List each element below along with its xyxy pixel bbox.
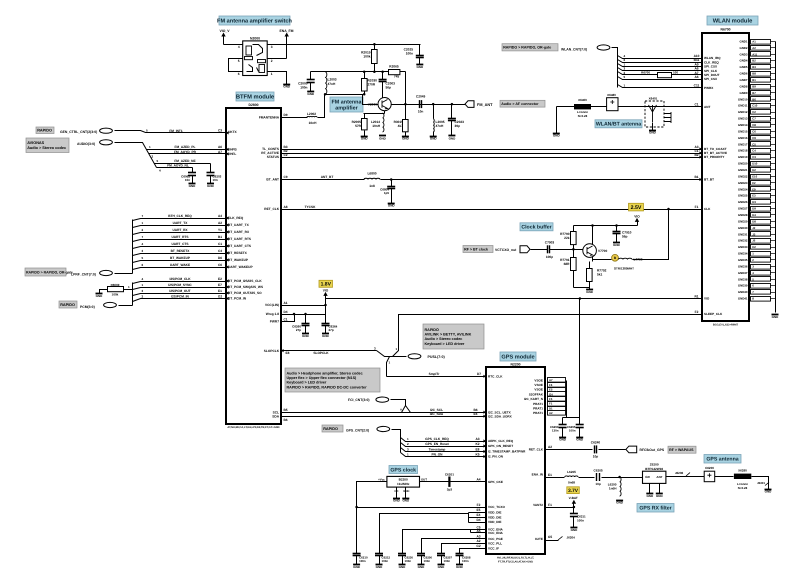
svg-text:C6200: C6200 [705,466,714,470]
inductor L2014 10nH [383,113,384,132]
svg-text:C4: C4 [218,249,222,253]
svg-text:+Vcc: +Vcc [378,477,385,481]
svg-text:A4: A4 [218,214,222,218]
svg-text:Y1: Y1 [218,228,222,232]
svg-text:GND: GND [207,184,215,188]
wire X6290 to GND end [752,477,769,490]
svg-text:GND: GND [571,528,579,532]
label RAPIDO (PCM) [59,301,77,308]
capacitor C6240 10p series [594,445,596,453]
wire switch pin1 to ground [268,72,287,85]
svg-text:22k: 22k [564,236,570,240]
svg-text:GND18: GND18 [738,149,748,153]
wire emitter V7700 [592,257,594,262]
svg-text:100n: 100n [424,559,431,563]
svg-text:C6240: C6240 [591,441,601,445]
wire amplifier top rail [311,71,389,73]
svg-text:BT_WAKEUP: BT_WAKEUP [170,256,191,260]
svg-text:C6205: C6205 [594,468,603,472]
svg-text:100n: 100n [444,559,451,563]
svg-text:GND: GND [388,203,396,207]
svg-text:I2_TIMESTAMP_BATPWR: I2_TIMESTAMP_BATPWR [488,450,526,454]
svg-text:D4: D4 [476,518,480,522]
svg-text:C9: C9 [752,136,756,140]
svg-text:VIO: VIO [704,297,710,301]
wire PCM I2S/PCM_SYNC [133,288,227,290]
resistor R3015 4k7 [405,105,407,120]
svg-text:PN_ON: PN_ON [432,453,444,457]
svg-text:V7700: V7700 [598,249,607,253]
svg-text:GND8: GND8 [739,84,747,88]
svg-text:E9: E9 [752,187,756,191]
svg-text:130n: 130n [552,429,559,433]
svg-text:GND22: GND22 [738,174,748,178]
wire PCM bus to riser [119,305,133,307]
ground C6210 [353,565,361,569]
svg-text:J2: J2 [752,226,756,230]
svg-text:B2: B2 [694,153,698,157]
svg-text:RAPIDO: RAPIDO [60,303,75,307]
svg-text:1n6H: 1n6H [609,487,617,491]
svg-text:E10: E10 [752,174,757,178]
svg-text:R6069: R6069 [111,283,120,287]
wire output line [392,104,466,106]
wire L6800 to WLAN BT_BT [381,179,703,181]
svg-text:RAPIDO > RAPIDO, OR-gate: RAPIDO > RAPIDO, OR-gate [503,46,551,50]
svg-text:GND: GND [772,315,780,319]
resistor R7791 68R [573,250,575,258]
ground R6069 [96,294,104,298]
svg-text:BT_PCM_OUT/I2S_SO: BT_PCM_OUT/I2S_SO [228,291,262,295]
svg-text:VCC_PGE: VCC_PGE [488,537,503,541]
svg-text:1p5: 1p5 [384,191,390,195]
ground ANT line [553,133,561,137]
svg-text:3.7V: 3.7V [568,488,579,494]
svg-text:GPK_CKE: GPK_CKE [488,480,503,484]
svg-text:GND: GND [302,334,310,338]
svg-text:PUSL(7:0): PUSL(7:0) [428,355,446,359]
svg-text:D3: D3 [752,200,756,204]
svg-text:R6700: R6700 [641,71,650,75]
svg-text:10p: 10p [595,482,600,486]
svg-text:10n: 10n [213,178,218,182]
svg-text:GND4: GND4 [739,59,747,63]
svg-text:Wreg 1.8: Wreg 1.8 [266,312,279,316]
wire L2002 to amplifier input rail [318,95,325,118]
ground clock buffer [586,290,594,294]
svg-text:C1: C1 [218,242,222,246]
wire WLAN_CNT line A9 [618,64,703,67]
wire GPS power pin rail [566,381,568,418]
svg-text:GND: GND [283,85,291,89]
wire to C6205 [579,477,595,479]
ground R2005 [361,136,369,140]
svg-text:GND34: GND34 [738,252,748,256]
capacitor C6804 1p5 [390,178,393,181]
svg-text:GND38: GND38 [738,277,748,281]
wire rail up to 1.8V line [579,299,581,418]
wire AUDIO line FM_AOYD_NL [157,167,193,169]
svg-text:D7: D7 [477,372,481,376]
wire UART UART_WAKE [133,268,227,270]
svg-text:GND1: GND1 [739,39,747,43]
svg-text:B1: B1 [694,175,698,179]
wire SmplTr to GPS RTC_CLK [387,376,487,378]
svg-text:J6: J6 [752,239,756,243]
svg-text:A5: A5 [476,529,480,533]
svg-text:WLAN/BT antenna: WLAN/BT antenna [596,122,641,128]
label Audio Headphone box [285,368,380,392]
wire UART BTH_CLK_REQ [133,219,227,221]
capacitor C6211 100n [573,508,575,514]
wire VCC_TCXO [357,507,487,509]
label AVIONAS Audio > Stereo codec [26,138,69,153]
ground C6264 [322,334,330,338]
svg-text:1n8: 1n8 [369,184,375,188]
svg-text:1: 1 [271,72,273,76]
WLAN left pin names [704,56,727,316]
svg-text:D9: D9 [283,113,287,117]
svg-text:C11: C11 [694,84,700,88]
svg-text:A: A [400,408,402,412]
svg-text:RAPIDO > RAPIDO, RAPIDO DC-DC: RAPIDO > RAPIDO, RAPIDO DC-DC converter [287,385,368,389]
svg-text:GND: GND [613,243,621,247]
svg-text:68R: 68R [564,262,571,266]
svg-text:745: 745 [394,75,400,79]
svg-text:2.5V: 2.5V [631,205,642,211]
svg-text:GND29: GND29 [738,219,748,223]
svg-text:VCC_PLL: VCC_PLL [488,542,502,546]
svg-text:GND: GND [656,494,664,498]
svg-text:E8: E8 [476,448,480,452]
svg-text:L6205: L6205 [567,470,576,474]
svg-text:AVL,NU,RF,NU,K2,LP,LT,LH,LT,: AVL,NU,RF,NU,K2,LP,LT,LH,LT, [497,557,535,560]
svg-text:VDD_DIE: VDD_DIE [488,511,501,515]
svg-text:C8: C8 [752,123,756,127]
svg-text:UART_WAKEUP: UART_WAKEUP [228,265,253,269]
svg-text:100: 100 [673,71,678,75]
ground C6062 [189,184,197,188]
svg-text:100k: 100k [363,55,370,59]
svg-text:D4: D4 [752,213,756,217]
wire PCM I2S/PCM_CLK [133,282,227,284]
svg-text:VIO_V: VIO_V [220,29,231,33]
wire clock buffer top rail [574,225,638,227]
svg-text:I2S/PCM_CLK: I2S/PCM_CLK [169,277,191,281]
wire I2C_SCL [282,412,487,414]
svg-text:C1: C1 [283,317,287,321]
svg-text:C7903: C7903 [545,241,555,245]
svg-text:FM antenna amplifier switch: FM antenna amplifier switch [217,18,292,25]
svg-text:FM_INT1: FM_INT1 [169,129,183,133]
svg-text:UKTX: UKTX [228,130,238,134]
svg-text:E8: E8 [286,351,290,355]
label: FM antenna amplifier switch [219,16,290,25]
svg-text:100k: 100k [112,293,119,297]
capacitor C6230 100n [402,553,404,555]
ground Z6200 leg2 [656,494,664,498]
svg-text:A2: A2 [218,221,222,225]
svg-text:A8: A8 [283,205,287,209]
capacitor C2023 39p [451,103,454,106]
label 2.5V [629,203,644,211]
svg-text:VSOE: VSOE [534,383,543,387]
svg-text:D8: D8 [752,219,756,223]
svg-text:K5: K5 [475,453,479,457]
svg-text:RFClkOut_GPS: RFClkOut_GPS [640,448,665,452]
wire C6240 to connector [599,449,626,451]
svg-text:SmplTr: SmplTr [429,372,441,376]
wire amplifier mid rail [325,95,379,105]
svg-text:GND: GND [322,334,330,338]
svg-text:J6204: J6204 [567,536,576,540]
connector FM_ANT [465,101,474,108]
svg-text:D4: D4 [283,310,287,314]
svg-text:N=0.28: N=0.28 [578,114,588,118]
wire GEN_CTRL to UKTX pin C3 [115,131,227,133]
capacitor C2000 100n [310,72,312,80]
svg-text:N=0.28: N=0.28 [738,486,748,490]
svg-text:B6: B6 [752,97,756,101]
capacitor C2049 10n series [419,100,421,108]
svg-text:GPS_EN_Reset: GPS_EN_Reset [425,442,449,446]
svg-text:R2065: R2065 [389,64,399,68]
svg-text:SLOPCLK: SLOPCLK [264,349,280,353]
svg-text:GND: GND [616,500,624,504]
svg-text:J6206: J6206 [675,471,684,475]
resistor R6069 100k [100,290,108,294]
BTFM left pin names [228,130,263,301]
svg-text:N6700: N6700 [721,28,731,32]
svg-text:GND5: GND5 [739,65,747,69]
svg-text:X6400: X6400 [578,98,587,102]
svg-text:CLK_REQ: CLK_REQ [228,216,244,220]
capacitor C6260 27p [304,313,307,316]
ground GPS antenna [765,489,773,493]
svg-text:3: 3 [271,45,273,49]
svg-text:19.2MHz: 19.2MHz [397,482,410,486]
svg-text:C1: C1 [694,103,698,107]
svg-text:SLEEP_CLK: SLEEP_CLK [704,312,723,316]
svg-text:39p: 39p [455,124,461,128]
svg-text:K2: K2 [475,442,479,446]
svg-text:GND13: GND13 [738,117,748,121]
resistor R2005 57R [364,114,366,119]
wire GPS_CLK_REQ [401,438,487,442]
svg-text:X6480: X6480 [607,93,616,97]
svg-text:VHFB: VHFB [228,148,237,152]
svg-text:F1: F1 [548,503,552,507]
ground C6290 [559,437,567,441]
svg-text:GND7: GND7 [739,78,747,82]
svg-text:C2049: C2049 [416,94,426,98]
ground L6200 [616,500,624,504]
svg-text:CLK: CLK [704,207,711,211]
svg-text:UART_TX: UART_TX [173,221,189,225]
svg-text:GND12: GND12 [738,110,748,114]
svg-text:LPRF_CNT(7:0): LPRF_CNT(7:0) [71,272,96,276]
svg-text:GND: GND [649,130,657,134]
ground C6211 [570,528,578,532]
svg-text:UART_CTS: UART_CTS [171,242,188,246]
svg-text:J6301: J6301 [757,481,765,485]
svg-text:AT,NU,RF,CA,LT,8.6,LPF,DF,TR,F: AT,NU,RF,CA,LT,8.6,LPF,DF,TR,FT,GT+GND [227,426,279,429]
wire UART BT_RESETX [133,254,227,256]
svg-text:B9: B9 [752,84,756,88]
label RAPIDO AVILINK box [423,324,484,349]
svg-text:A1: A1 [283,301,287,305]
svg-text:47nH: 47nH [328,82,336,86]
svg-text:B7: B7 [752,91,756,95]
svg-text:BT_RESETX: BT_RESETX [171,249,191,253]
svg-text:VCC_TCXO: VCC_TCXO [488,505,505,509]
wire R2065 down to output [405,72,407,105]
wire Timestamp [401,448,487,452]
svg-text:GPS module: GPS module [501,354,534,361]
resistor R7792 5k1 [589,262,591,269]
svg-text:FM_ANT: FM_ANT [477,103,493,107]
svg-text:FM_AZED_NE: FM_AZED_NE [174,159,195,163]
ground C6295 [576,437,584,441]
svg-text:ANT: ANT [704,105,710,109]
svg-text:GND: GND [559,437,567,441]
oscillator B2200 19.2MHz [387,476,420,487]
svg-text:100n: 100n [462,559,469,563]
wire B2200 Vcc to rail [357,482,387,508]
resistor R2019 100k [374,45,376,50]
svg-text:GND: GND [646,494,654,498]
wire LPRF to bus riser [115,273,133,275]
svg-text:GND25: GND25 [738,194,748,198]
ground B2200 GND [402,498,410,502]
wire AUDIO line FM_AOYD_PR [149,153,227,155]
svg-text:56p: 56p [622,235,628,239]
svg-text:PRAT1: PRAT1 [533,402,543,406]
svg-text:I2_PN_ON: I2_PN_ON [488,455,504,459]
svg-text:SLOPCLK: SLOPCLK [313,351,329,355]
svg-text:C3: C3 [752,155,756,159]
svg-text:BT_UART_RX: BT_UART_RX [228,230,250,234]
wire VDD_DIE group [468,513,470,523]
svg-text:GND: GND [765,489,773,493]
ground C6206 [418,565,426,569]
wire collector V7700 [592,226,594,245]
svg-text:L2002: L2002 [307,112,316,116]
svg-text:OUT: OUT [421,477,427,481]
svg-text:GND37: GND37 [738,271,748,275]
svg-text:TYCSK: TYCSK [305,205,317,209]
svg-text:1.8V: 1.8V [321,282,332,288]
wire PN_ON [401,453,487,457]
svg-text:STR/1389MHT: STR/1389MHT [614,266,634,270]
wire WLAN_CNT line A7 [618,72,703,75]
wire FCI to I2C lines [391,400,406,413]
ground C6230 [399,565,407,569]
ground C2023 [448,136,456,141]
svg-text:PWRX: PWRX [704,86,714,90]
GPS left pin names [488,375,526,551]
capacitor C6212 100n [379,553,381,555]
svg-text:GND: GND [376,565,384,569]
svg-text:100n: 100n [577,519,584,523]
svg-text:C5: C5 [752,142,756,146]
wire STATUS BTFM to WLAN [282,157,703,159]
svg-text:GPS_CNT(2:0): GPS_CNT(2:0) [346,429,369,433]
svg-text:10nH: 10nH [372,124,380,128]
svg-text:100n: 100n [405,559,412,563]
resistor R6700 100 [658,73,672,78]
svg-text:V2000: V2000 [368,102,377,106]
svg-text:GND: GND [430,136,438,140]
svg-text:VSOE: VSOE [534,388,543,392]
svg-text:GND35: GND35 [738,258,748,262]
svg-text:VIO: VIO [323,288,329,292]
svg-text:BTFM module: BTFM module [236,94,275,101]
svg-text:GND14: GND14 [738,123,748,127]
svg-text:Upper flex > Upper flex connec: Upper flex > Upper flex connector (N1S) [287,376,358,380]
svg-text:GND31: GND31 [738,232,748,236]
svg-text:GND: GND [353,565,361,569]
resistor R2030 270R [364,72,366,79]
svg-text:GND: GND [418,565,426,569]
ground C7910 [613,243,621,247]
capacitor C2003 56p [382,72,384,80]
svg-text:E2: E2 [218,277,222,281]
wire VCTCXO to C7903 [531,249,548,251]
label RAPIDO (GEN_CTRL) [36,127,54,134]
svg-text:BTFS42W93: BTFS42W93 [645,467,663,471]
wire UART UART_CTS [133,247,227,249]
svg-text:GND: GND [438,565,446,569]
wire C6210 riser [356,508,358,554]
svg-text:PRAT1: PRAT1 [533,407,543,411]
svg-text:BT_UART_TX: BT_UART_TX [228,223,250,227]
label: GPS module [500,352,536,361]
inductor L2003 47nH [325,72,327,94]
svg-text:GEN_CTRL_CNT(2(3:0): GEN_CTRL_CNT(2(3:0) [60,130,97,134]
svg-text:BT_PCM_IN: BT_PCM_IN [228,297,247,301]
svg-text:RTC_CLK: RTC_CLK [488,375,503,379]
svg-text:X6401: X6401 [649,96,658,100]
svg-text:3p3: 3p3 [447,487,453,491]
svg-text:GND: GND [449,136,457,140]
svg-text:UART_WAKE: UART_WAKE [170,263,190,267]
svg-text:GND: GND [361,136,369,140]
svg-text:VDD_DIE: VDD_DIE [488,516,501,520]
capacitor C6208 100n [459,553,461,555]
svg-text:56p: 56p [386,86,392,90]
svg-text:GND: GND [96,294,104,298]
svg-text:GND26: GND26 [738,200,748,204]
wire WLAN_CNT line A6 [618,77,703,80]
svg-text:5: 5 [238,59,240,63]
svg-text:GPS_CLK_REQ: GPS_CLK_REQ [425,437,449,441]
wire base bias to ground rail [574,287,590,289]
svg-text:ENA_FM: ENA_FM [280,29,294,33]
capacitor C2025 100n [419,45,421,56]
svg-text:I2C_KART_N: I2C_KART_N [524,397,544,401]
wire Z6201 to X6290 [715,476,734,478]
label: Clock buffer [520,223,553,231]
BTFM right pin names [259,115,280,418]
inductor L2002 10nH [307,115,317,118]
wire GPS_EN_Reset [401,443,487,447]
wire clock buffer output to CLK line [633,210,669,260]
inductor L6800 1n8 [364,178,380,179]
wire switch pin5-pin6 loop [229,59,243,72]
connector RFClkOut_GPS [626,446,637,453]
label: FM antenna amplifier [330,97,363,112]
